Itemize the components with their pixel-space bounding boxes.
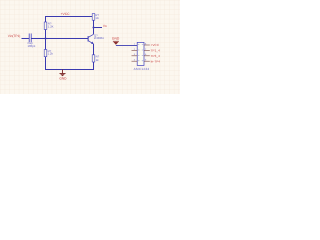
resistor R1 1.2K <box>44 22 47 30</box>
op-amp U1 body <box>137 42 144 65</box>
wire collector vertical <box>93 20 95 34</box>
wire top +VCC rail <box>46 17 93 23</box>
resistor R4 1k <box>92 55 95 62</box>
svg-text:2N3904: 2N3904 <box>94 36 104 40</box>
svg-text:Vo: Vo <box>103 24 107 28</box>
svg-text:TP3_4: TP3_4 <box>151 54 161 58</box>
pin 3 <box>132 55 138 57</box>
svg-text:100pF: 100pF <box>28 44 36 48</box>
wire cap input <box>22 38 30 40</box>
pin 5 <box>144 60 150 62</box>
transistor Q1 2N3904 <box>88 34 104 45</box>
pin numbers left <box>134 42 147 61</box>
svg-text:GND: GND <box>112 37 120 41</box>
power port GND at IC <box>112 37 120 45</box>
pin 4 <box>132 60 138 62</box>
wire base horizontal <box>31 38 88 40</box>
wire GND to pin1 <box>116 44 137 46</box>
svg-text:AMC1234: AMC1234 <box>134 67 150 71</box>
junction dot Vo tap <box>93 27 95 29</box>
junction dot node base divider <box>45 38 47 40</box>
pin 6 <box>144 55 150 57</box>
svg-text:1K: 1K <box>95 16 99 20</box>
net labels right of U1 <box>151 43 161 63</box>
pin 8 <box>144 44 150 46</box>
pin 7 <box>144 49 150 51</box>
svg-text:GND: GND <box>59 76 67 80</box>
pin 2 <box>132 49 138 51</box>
svg-text:1.2K: 1.2K <box>48 24 54 28</box>
resistor R2 1.2k <box>44 50 47 57</box>
wire emitter vertical <box>93 44 95 55</box>
resistor R3 1K <box>92 14 95 21</box>
U1 pin-name marks <box>138 45 143 61</box>
capacitor C1 plates <box>29 34 31 43</box>
svg-text:+VCC: +VCC <box>151 43 160 47</box>
wire left vertical middle <box>45 30 47 50</box>
ground GND bottom <box>59 70 67 81</box>
svg-text:Vin(TP1): Vin(TP1) <box>8 34 21 38</box>
svg-text:+VCC: +VCC <box>61 12 71 16</box>
svg-text:TP1_4: TP1_4 <box>151 49 161 53</box>
svg-text:In-TP4: In-TP4 <box>151 59 161 63</box>
wire Vo <box>94 27 103 29</box>
wire left vertical bottom <box>46 57 94 70</box>
svg-text:1.2k: 1.2k <box>48 52 54 56</box>
